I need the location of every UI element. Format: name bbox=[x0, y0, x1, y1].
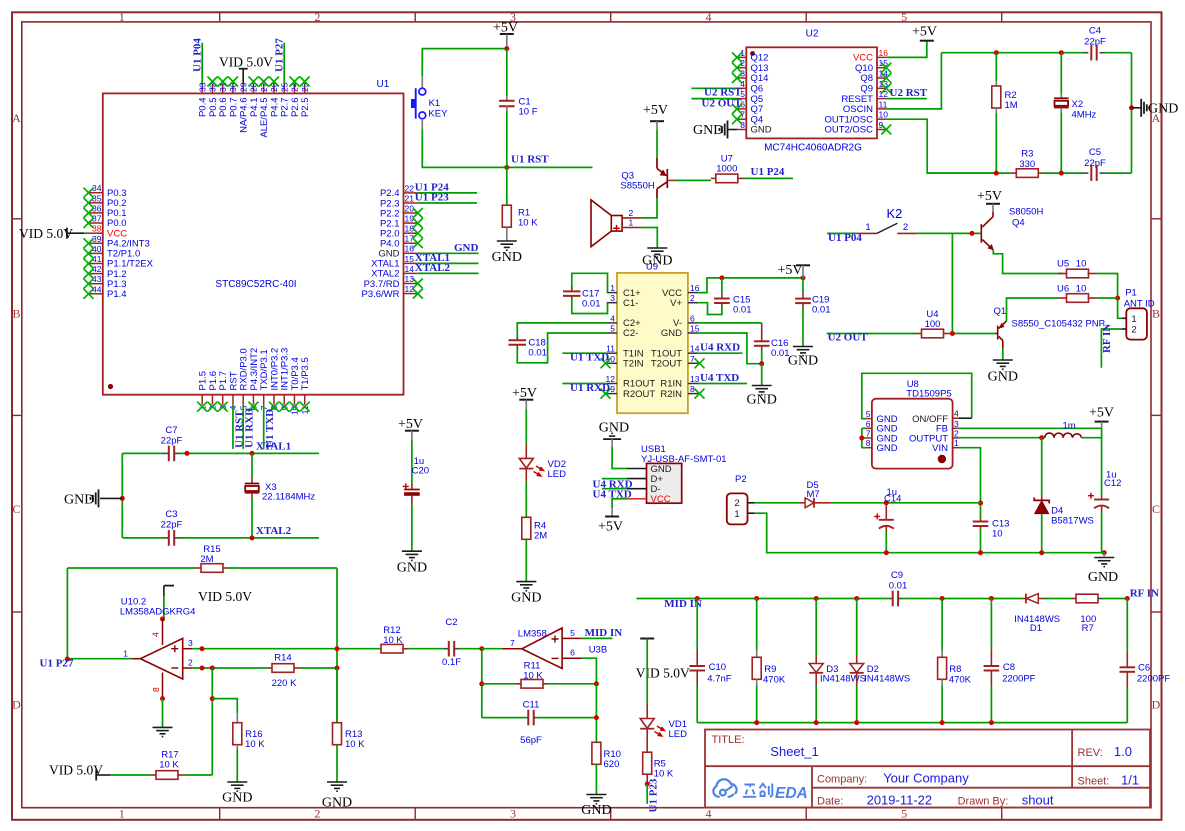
wire down to ground bbox=[761, 364, 763, 386]
frame row ticks left bbox=[12, 219, 22, 612]
resistor R16 bbox=[233, 713, 266, 782]
diode D4 B5817WS schottky bbox=[1034, 438, 1094, 553]
ground flag right bbox=[1132, 99, 1179, 117]
op-amp pin6 bbox=[562, 657, 582, 659]
svg-text:33: 33 bbox=[197, 82, 207, 92]
frame row ticks right bbox=[1151, 219, 1162, 612]
power flag +5V above Q4 bbox=[977, 189, 1002, 212]
svg-text:R3: R3 bbox=[1021, 149, 1033, 160]
svg-text:16: 16 bbox=[405, 244, 415, 254]
svg-text:M7: M7 bbox=[807, 489, 820, 500]
wire U4 TXD (pin13) bbox=[698, 383, 747, 385]
svg-text:330: 330 bbox=[1019, 159, 1035, 170]
wire right feedback vertical bbox=[595, 684, 597, 743]
svg-text:shout: shout bbox=[1022, 793, 1054, 808]
switch K2 bbox=[857, 206, 917, 233]
svg-text:3: 3 bbox=[954, 419, 959, 429]
wire USB D- bbox=[602, 488, 627, 490]
svg-text:B5817WS: B5817WS bbox=[1051, 516, 1094, 527]
resistor R4 bbox=[522, 517, 547, 581]
svg-text:P3.6/WR: P3.6/WR bbox=[361, 289, 399, 300]
wire inductor to C12 bbox=[1082, 428, 1102, 437]
U8 left pin names bbox=[877, 414, 898, 454]
svg-text:10: 10 bbox=[879, 110, 889, 120]
wire feedback right vertical bbox=[336, 568, 338, 723]
svg-text:GND: GND bbox=[1088, 570, 1118, 585]
svg-text:Your Company: Your Company bbox=[883, 771, 969, 786]
junction bbox=[120, 496, 125, 501]
svg-text:P1.4: P1.4 bbox=[107, 289, 127, 300]
svg-text:2: 2 bbox=[954, 429, 959, 439]
ground flag above USB1 bbox=[599, 421, 629, 448]
led VD1 bbox=[640, 639, 687, 754]
svg-text:S8550_C105432 PNP: S8550_C105432 PNP bbox=[1012, 319, 1106, 330]
svg-text:XTAL2: XTAL2 bbox=[415, 262, 451, 274]
wire right vertical bbox=[1131, 53, 1133, 173]
power flag VID 5.0V (pin 29) bbox=[219, 55, 273, 84]
power flag +5V bbox=[493, 21, 518, 49]
transistor Q1 S8550 (PNP) bbox=[996, 321, 1007, 348]
svg-text:D1: D1 bbox=[1030, 623, 1042, 634]
wire XTAL2 (pin 14) bbox=[418, 272, 479, 274]
wire U1 P27 (pin 25) bbox=[283, 43, 285, 84]
svg-text:1: 1 bbox=[610, 283, 615, 293]
resistor R3 bbox=[1011, 149, 1044, 178]
title block frame bbox=[705, 730, 1150, 808]
svg-text:100: 100 bbox=[925, 319, 941, 330]
junctions MID IN rail bbox=[695, 596, 700, 601]
transistor Q4 S8050H (NPN) bbox=[981, 212, 993, 250]
wire C9 to D1 bbox=[902, 598, 1021, 600]
svg-text:TITLE:: TITLE: bbox=[712, 734, 745, 746]
svg-text:U4 RXD: U4 RXD bbox=[700, 342, 740, 354]
resistor U5 bbox=[1057, 259, 1097, 278]
junctions bottom rail bbox=[884, 550, 889, 555]
U2 right pin numbers bbox=[879, 48, 889, 130]
USB1 pin leads bbox=[627, 468, 647, 470]
U8 left pin numbers bbox=[866, 409, 871, 448]
svg-text:C14: C14 bbox=[884, 493, 901, 504]
svg-text:GND: GND bbox=[222, 791, 252, 806]
capacitor C7 bbox=[161, 425, 183, 461]
svg-text:U2: U2 bbox=[806, 29, 819, 40]
led VD2 bbox=[519, 409, 566, 518]
op-amp U3B bbox=[518, 628, 607, 669]
svg-text:U1: U1 bbox=[377, 79, 390, 90]
wire XTAL1 (pin 15) bbox=[418, 262, 479, 264]
svg-text:2: 2 bbox=[903, 222, 908, 233]
junction bbox=[970, 231, 975, 236]
wire U4 to Q1 base bbox=[949, 333, 996, 335]
capacitor C9 bbox=[889, 570, 908, 606]
svg-text:3: 3 bbox=[188, 638, 193, 648]
svg-text:10: 10 bbox=[1076, 284, 1087, 295]
power flag +5V bbox=[643, 103, 668, 130]
U1 top no-connect X marks bbox=[207, 77, 217, 87]
svg-text:K2: K2 bbox=[887, 206, 903, 221]
wire Q1 emitter to GND bbox=[1002, 348, 1004, 360]
wire Q3 base to U7 bbox=[668, 179, 674, 181]
svg-text:VID 5.0V: VID 5.0V bbox=[198, 589, 252, 604]
svg-text:220 K: 220 K bbox=[272, 678, 297, 689]
wire P2 pin1 to bottom rail bbox=[755, 513, 1104, 553]
svg-text:0.01: 0.01 bbox=[771, 348, 790, 359]
svg-text:GND: GND bbox=[64, 493, 94, 508]
wire VIN pin1 to C13 bbox=[959, 448, 981, 518]
ground below R16 bbox=[227, 782, 247, 791]
wire U6 left to Q1 collector bbox=[1007, 298, 1059, 321]
U9 right pin numbers bbox=[690, 283, 700, 394]
svg-text:R9: R9 bbox=[764, 664, 776, 675]
svg-text:VID 5.0V: VID 5.0V bbox=[49, 763, 103, 778]
connector P2 bbox=[727, 474, 755, 524]
svg-text:U1 P27: U1 P27 bbox=[273, 38, 285, 72]
junction bbox=[950, 331, 955, 336]
resistor R10 bbox=[592, 742, 621, 794]
wire U1 P04 to K2 bbox=[827, 232, 857, 234]
U9 left pin names bbox=[623, 288, 655, 400]
svg-text:T2IN: T2IN bbox=[623, 359, 644, 370]
junction bbox=[1129, 105, 1134, 110]
wire MID IN rail bbox=[637, 598, 889, 600]
svg-text:C20: C20 bbox=[412, 466, 429, 477]
svg-text:C7: C7 bbox=[165, 425, 177, 436]
svg-text:GND: GND bbox=[751, 125, 772, 136]
svg-text:2200PF: 2200PF bbox=[1002, 674, 1035, 685]
crystal X3 bbox=[245, 453, 316, 538]
U2 left pin stubs bbox=[737, 57, 746, 129]
resistor U7 bbox=[711, 154, 743, 183]
svg-text:U4 TXD: U4 TXD bbox=[700, 372, 739, 384]
svg-text:Sheet_1: Sheet_1 bbox=[770, 744, 818, 759]
diode D1 IN4148WS bbox=[1014, 594, 1071, 635]
svg-text:2: 2 bbox=[629, 208, 634, 218]
svg-text:6: 6 bbox=[690, 313, 695, 323]
wire U2 OUT to U4 bbox=[827, 333, 917, 335]
frame column numbers bottom bbox=[119, 807, 907, 821]
junction bbox=[504, 165, 509, 170]
capacitor C19 bbox=[795, 278, 830, 347]
svg-text:GND: GND bbox=[988, 370, 1018, 385]
U1 left pin names bbox=[107, 188, 154, 300]
svg-text:Drawn By:: Drawn By: bbox=[958, 796, 1009, 808]
capacitor C12 polarized bbox=[1088, 470, 1122, 553]
U9 no-connect X marks bbox=[601, 358, 611, 368]
svg-text:Q1: Q1 bbox=[994, 306, 1007, 317]
resistor R5 bbox=[643, 752, 674, 784]
switch K1 bbox=[411, 88, 448, 119]
U1 bottom pin numbers 1-11 bbox=[197, 405, 310, 415]
svg-text:3: 3 bbox=[510, 807, 516, 821]
svg-text:C4: C4 bbox=[1089, 26, 1101, 37]
wire VCC pin38 bbox=[84, 232, 89, 234]
svg-text:X2: X2 bbox=[1072, 99, 1084, 110]
frame row letters right bbox=[1152, 111, 1161, 712]
svg-text:3: 3 bbox=[610, 293, 615, 303]
svg-text:GND: GND bbox=[747, 393, 777, 408]
mcu U1 body bbox=[103, 79, 404, 395]
capacitor C3 bbox=[161, 509, 183, 546]
diode D2 IN4148WS bbox=[850, 599, 911, 723]
power flag +5V above VD2 bbox=[512, 386, 537, 409]
ground below C19 bbox=[793, 347, 813, 356]
svg-text:+5V: +5V bbox=[643, 103, 668, 118]
svg-text:GND: GND bbox=[454, 242, 479, 254]
svg-text:470K: 470K bbox=[949, 675, 972, 686]
svg-text:C6: C6 bbox=[1138, 663, 1150, 674]
svg-text:R8: R8 bbox=[949, 664, 961, 675]
svg-text:C11: C11 bbox=[523, 700, 540, 711]
U1 right pin stubs bbox=[404, 193, 418, 294]
wire P2 pin2 to D5 bbox=[755, 502, 800, 504]
svg-text:4: 4 bbox=[610, 313, 615, 323]
svg-text:R2OUT: R2OUT bbox=[623, 389, 655, 400]
svg-text:7: 7 bbox=[510, 638, 515, 648]
svg-text:U1 P23: U1 P23 bbox=[415, 192, 449, 204]
svg-text:16: 16 bbox=[690, 283, 700, 293]
wire VCC pin16 to +5V rail bbox=[698, 278, 803, 293]
svg-text:1/1: 1/1 bbox=[1121, 773, 1139, 788]
svg-text:15: 15 bbox=[405, 254, 415, 264]
svg-text:10 F: 10 F bbox=[519, 107, 538, 118]
junction bbox=[250, 535, 255, 540]
svg-text:C: C bbox=[12, 502, 20, 516]
capacitor C15 loop bbox=[698, 278, 751, 316]
capacitor C14 polarized bbox=[874, 487, 901, 553]
svg-text:XTAL2: XTAL2 bbox=[256, 525, 292, 537]
wire C12 bottom jog bbox=[1102, 552, 1105, 554]
wire Q4 emitter to U5 bbox=[993, 250, 1063, 274]
svg-text:0.1F: 0.1F bbox=[442, 657, 461, 668]
svg-text:38: 38 bbox=[92, 224, 102, 234]
power flag VID 5.0V (pin 38 VCC) bbox=[19, 226, 84, 241]
power flag VID 5.0V above VD1 bbox=[636, 639, 690, 681]
resistor R11 bbox=[482, 661, 597, 689]
wire U8 pins 6-7-8 tie bbox=[861, 428, 863, 447]
svg-text:15: 15 bbox=[690, 324, 700, 334]
wire top rail bbox=[941, 52, 1083, 54]
wire U5 to P1 pin1 bbox=[1097, 274, 1122, 319]
svg-text:+5V: +5V bbox=[977, 189, 1002, 204]
wire USB VCC to +5V bbox=[612, 499, 627, 508]
wire K1 to U1 RST node bbox=[421, 119, 423, 130]
capacitor C10 bbox=[689, 599, 731, 723]
wire Q3 collector to speaker pin2 bbox=[641, 198, 657, 218]
wire K2 node down to U4 node bbox=[951, 233, 953, 333]
svg-text:4: 4 bbox=[954, 409, 959, 419]
junction bbox=[504, 46, 509, 51]
U1 right pin numbers 22-12 bbox=[405, 183, 415, 294]
U8 right pin stubs bbox=[953, 418, 959, 448]
svg-text:2: 2 bbox=[1131, 325, 1136, 336]
junctions bottom rail bbox=[994, 171, 999, 176]
ground below Q1 bbox=[993, 360, 1013, 369]
capacitor C6 bbox=[1120, 599, 1171, 723]
capacitor C8 bbox=[984, 599, 1036, 723]
ground below R4 bbox=[516, 582, 536, 591]
svg-text:1.0: 1.0 bbox=[1114, 744, 1132, 759]
svg-text:1: 1 bbox=[123, 649, 128, 659]
resistor R12 bbox=[381, 625, 444, 653]
svg-text:D: D bbox=[1152, 698, 1161, 712]
svg-text:2: 2 bbox=[734, 498, 739, 509]
svg-text:2: 2 bbox=[314, 10, 320, 24]
svg-text:10 K: 10 K bbox=[383, 635, 403, 646]
svg-text:IN4148WS: IN4148WS bbox=[864, 674, 910, 685]
svg-text:0.01: 0.01 bbox=[582, 299, 601, 310]
svg-text:GND: GND bbox=[511, 591, 541, 606]
connector P1 bbox=[1122, 288, 1155, 340]
svg-text:2200PF: 2200PF bbox=[1137, 674, 1170, 685]
wire pin8 to ground bbox=[162, 699, 164, 728]
svg-text:8: 8 bbox=[866, 438, 871, 448]
U8 left pin stubs bbox=[866, 419, 872, 448]
wire GND pin15 bbox=[698, 333, 762, 364]
U2 right pin stubs bbox=[877, 57, 886, 129]
svg-text:U9: U9 bbox=[646, 262, 658, 273]
wire P1 pin2 RF IN bbox=[1101, 329, 1122, 368]
wire U2 pin4 bbox=[691, 87, 737, 89]
wire U4 RXD (pin14) bbox=[698, 352, 742, 354]
ground below C20 bbox=[402, 551, 422, 560]
U1 left pin stubs bbox=[89, 193, 103, 294]
svg-text:A: A bbox=[12, 111, 21, 125]
wire U1 TXD (pin11) bbox=[562, 352, 606, 354]
svg-text:10 K: 10 K bbox=[523, 671, 543, 682]
ground below R1 bbox=[497, 241, 517, 250]
U8 right pin numbers bbox=[954, 409, 959, 449]
svg-text:LED: LED bbox=[669, 729, 688, 740]
U9 left pin numbers bbox=[606, 283, 616, 394]
svg-text:16: 16 bbox=[879, 48, 889, 58]
svg-text:7: 7 bbox=[866, 429, 871, 439]
svg-text:S8050H: S8050H bbox=[1009, 207, 1043, 218]
svg-text:25: 25 bbox=[279, 82, 289, 92]
svg-text:2: 2 bbox=[314, 807, 320, 821]
U1 top pin names bbox=[198, 98, 312, 138]
svg-text:R14: R14 bbox=[274, 653, 291, 664]
svg-text:2M: 2M bbox=[200, 554, 213, 565]
svg-text:T1/P3.5: T1/P3.5 bbox=[300, 357, 311, 390]
svg-text:11: 11 bbox=[879, 99, 888, 109]
crystal X2 bbox=[1054, 53, 1097, 173]
capacitor C18 loop bbox=[509, 323, 608, 363]
wire D5 to VIN node bbox=[832, 502, 981, 504]
op-amp input pin2 bbox=[183, 667, 192, 669]
U1 right no-connect X marks bbox=[413, 208, 423, 218]
wire K2 to Q4 base bbox=[917, 232, 980, 234]
junctions bottom rail bbox=[754, 720, 759, 725]
wire XTAL2 rail bbox=[122, 537, 163, 539]
ground flag U2 pin8 bbox=[693, 121, 737, 139]
svg-text:620: 620 bbox=[604, 759, 620, 770]
capacitor C20 polarized bbox=[403, 440, 429, 551]
svg-text:1: 1 bbox=[954, 438, 959, 448]
wire U8 pin5 to ON/OFF pin4 loop bbox=[862, 373, 972, 418]
wire V- pin6 to C16 bbox=[698, 322, 762, 324]
wire U7 to U1 P24 bbox=[743, 177, 793, 179]
transistor Q3 S8550H (PNP) bbox=[657, 158, 667, 198]
U2 left pin numbers bbox=[740, 48, 745, 130]
wire U1 TXD (pin 7) bbox=[263, 405, 265, 449]
U1 top pin stubs bbox=[202, 83, 305, 93]
svg-text:GND: GND bbox=[581, 803, 611, 818]
wire to op-amp pin7 bbox=[482, 648, 503, 650]
svg-text:13: 13 bbox=[690, 374, 700, 384]
svg-text:MC74HC4060ADR2G: MC74HC4060ADR2G bbox=[764, 143, 862, 154]
svg-text:U1 P27: U1 P27 bbox=[40, 658, 74, 670]
U9 left pin stubs bbox=[607, 293, 617, 394]
wire U2 RST (pin5) bbox=[691, 98, 737, 100]
svg-text:+5V: +5V bbox=[912, 25, 937, 40]
ground below speaker bbox=[647, 248, 667, 257]
wire U1 RXD (pin12) bbox=[562, 383, 606, 385]
wire U1 P23 bbox=[646, 784, 648, 804]
svg-text:LED: LED bbox=[548, 469, 567, 480]
ground below R10 bbox=[586, 795, 606, 804]
wire GND (pin 16) bbox=[418, 252, 479, 254]
U2 right pin names bbox=[824, 53, 873, 136]
svg-text:RF IN: RF IN bbox=[1101, 324, 1113, 353]
speaker pins bbox=[622, 217, 641, 219]
svg-text:C9: C9 bbox=[891, 570, 903, 581]
ground below C16 bbox=[752, 386, 772, 395]
capacitor C16 bbox=[754, 338, 790, 364]
U8 right pin names bbox=[909, 414, 948, 454]
capacitor C1 bbox=[499, 49, 538, 168]
svg-text:GND: GND bbox=[788, 354, 818, 369]
svg-text:U6: U6 bbox=[1057, 284, 1069, 295]
svg-text:10 K: 10 K bbox=[654, 769, 674, 780]
svg-text:XTAL1: XTAL1 bbox=[256, 441, 291, 453]
svg-text:8: 8 bbox=[740, 120, 745, 130]
resistor R13 bbox=[333, 668, 366, 782]
svg-text:29: 29 bbox=[238, 82, 248, 92]
svg-text:6: 6 bbox=[866, 419, 871, 429]
diode D5 M7 bbox=[800, 480, 832, 508]
U1 bottom no-connect X marks bbox=[197, 402, 207, 412]
connector USB1 body bbox=[641, 444, 727, 505]
svg-text:21: 21 bbox=[405, 193, 415, 203]
wire +5V to Q3 emitter bbox=[656, 130, 658, 158]
svg-text:10 K: 10 K bbox=[245, 739, 265, 750]
junction bbox=[1115, 296, 1120, 301]
svg-text:470K: 470K bbox=[763, 675, 786, 686]
svg-text:C2-: C2- bbox=[623, 328, 638, 339]
svg-text:C: C bbox=[1152, 502, 1160, 516]
svg-text:1: 1 bbox=[629, 218, 634, 228]
svg-text:6: 6 bbox=[570, 648, 575, 658]
svg-text:1: 1 bbox=[119, 807, 125, 821]
wire FB pin3 to +5V bbox=[959, 427, 1102, 429]
svg-text:U2 OUT: U2 OUT bbox=[828, 331, 869, 343]
svg-text:1: 1 bbox=[119, 10, 125, 24]
svg-text:VID 5.0V: VID 5.0V bbox=[19, 226, 73, 241]
svg-text:22pF: 22pF bbox=[1084, 158, 1106, 169]
svg-text:Sheet:: Sheet: bbox=[1078, 776, 1110, 788]
svg-text:U1 RST: U1 RST bbox=[511, 154, 549, 166]
U1 left pin numbers 34-44 bbox=[92, 183, 102, 294]
junctions top rail bbox=[994, 50, 999, 55]
U2 right no-connect X marks bbox=[881, 63, 891, 73]
svg-text:GND: GND bbox=[1148, 102, 1178, 117]
svg-text:22pF: 22pF bbox=[161, 436, 183, 447]
svg-text:U1 RXD: U1 RXD bbox=[570, 382, 610, 394]
svg-text:MID IN: MID IN bbox=[585, 627, 623, 639]
wire OUT1 pin10 to bottom rail bbox=[886, 119, 996, 173]
svg-text:2: 2 bbox=[188, 657, 193, 667]
svg-text:REV:: REV: bbox=[1078, 747, 1103, 759]
